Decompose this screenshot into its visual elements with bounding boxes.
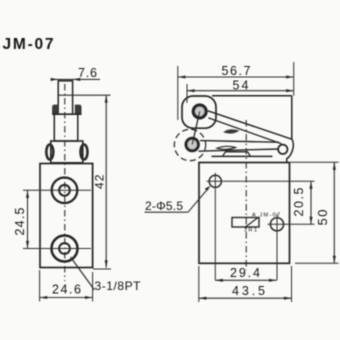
dimension 54 line [187,90,294,92]
dimension 20.5 arrow top [309,181,312,189]
fork upper edge [200,141,279,143]
svg-text:1R1: 1R1 [244,228,257,234]
nameplate rectangle [232,218,259,228]
stem tube [54,114,78,141]
roller holder block [51,141,83,163]
lower roller phantom circle (dashed) [174,129,205,160]
dimension 24.6 arrow left [40,296,48,299]
svg-text:29.4: 29.4 [230,266,260,280]
link line between roller centers [192,111,200,144]
collar tab left [52,105,59,114]
hole right vertical line down to 29.4 dimension [276,214,278,280]
extension line body bottom right for 42 [93,268,111,270]
valve body (right view) [199,163,290,264]
dimension 54 arrow left [187,89,195,92]
dimension 50 arrow top [333,162,336,170]
pivot circle [278,145,287,154]
dimension 50 extension line bottom [295,262,339,264]
port bottom horizontal centerline [23,248,91,250]
dimension 56.7 line [178,76,294,78]
fork lower edge [199,149,279,151]
dimension 29.4 line [215,279,276,281]
collar bottom edge [52,113,81,115]
dimension 43.5 line [199,297,292,299]
top roller housing (squircle) [182,96,216,128]
dimension 56.7 extension line left [177,66,179,120]
dimension 56.7 arrow left [178,75,186,78]
port bottom outer circle [52,236,78,262]
svg-text:43.5: 43.5 [232,284,265,298]
valve body (left view) [40,164,93,268]
dimension 43.5 extension line right [291,266,293,302]
dimension 42 text [93,174,107,189]
dimension 24.5 line [27,190,29,248]
svg-text:24.6: 24.6 [52,283,81,297]
port top horizontal centerline [23,189,91,191]
dimension 24.5 text [13,207,27,235]
svg-text:JM-07: JM-07 [3,36,54,53]
dimension 50 text [315,210,330,226]
dimension 7.6 line [52,78,100,80]
svg-text:42: 42 [93,174,107,189]
base plate channel notch [223,152,251,157]
label underline [145,211,189,213]
mounting hole top-left [209,175,221,187]
dimension 20.5 arrow bottom [309,217,312,225]
roller end left [46,145,53,160]
svg-text:3-1/8PT: 3-1/8PT [95,279,142,293]
dimension 42 arrow top [105,95,108,103]
dimension 50 line [333,162,335,263]
dimension 29.4 arrow left [215,279,223,282]
fork slot lens [217,146,236,149]
dimension 24.6 extension line right [92,272,94,302]
svg-text:2-Φ5.5: 2-Φ5.5 [145,199,183,213]
dimension 56.7 arrow right [286,75,294,78]
nameplate diagonal [246,218,259,228]
port bottom inner circle [59,243,70,254]
roller end right [81,145,88,160]
dimension 54 extension line left [186,84,188,103]
plunger shoulder line and 42 extension line [58,94,110,96]
leader line to 3-1/8PT [71,257,95,290]
head top edge [212,95,292,97]
lever arm slot (dark lens) [223,129,239,133]
dimension 20.5 line [310,181,312,224]
head right edge [287,96,294,163]
dimension 29.4 arrow right [269,279,277,282]
collar tab right [75,105,82,114]
mounting hole right [270,218,283,231]
lever top arm upper edge [208,111,292,139]
dimension 43.5 arrow right [284,297,292,300]
dimension 24.5 arrow top [26,190,29,198]
top roller inner ring [193,105,206,118]
dimension 54 arrow right [286,89,294,92]
dimension 7.6 arrow right [73,78,81,81]
dimension 20.5 text [292,187,306,216]
svg-text:24.5: 24.5 [13,207,27,235]
leader line to hole [188,188,209,212]
dimension 7.6 arrow left [51,78,59,81]
port top outer circle [52,178,78,204]
lower roller inner ring [186,138,198,150]
svg-text:56.7: 56.7 [222,64,251,78]
leader arrowhead [205,186,211,191]
dimension 24.6 arrow right [85,296,93,299]
svg-text:20.5: 20.5 [292,187,306,216]
dimension 24.6 line [40,297,93,299]
dimension 43.5 extension line left [198,266,200,302]
dimension 42 line [105,95,107,268]
dimension 50 arrow bottom [333,256,336,264]
dimension 42 arrow bottom [105,260,108,268]
plunger rod [58,81,72,114]
dimension 56.7 extension line right (top) [293,62,295,96]
hole right horizontal line to 20.5 dimension [268,223,315,225]
head base plate [212,155,273,157]
dimension 24.6 extension line left [39,270,41,302]
center line (right view vertical) [245,120,247,270]
hole top-left horizontal line to 20.5 dimension [207,180,315,182]
dimension 24.5 arrow bottom [26,241,29,249]
port top inner circle [59,185,70,196]
lever top arm lower edge [208,118,281,144]
center line (left view) [64,84,66,281]
hole top-left vertical line down to 29.4 dimension [214,173,216,280]
svg-text:7.6: 7.6 [78,66,97,80]
svg-text:50: 50 [315,210,330,226]
dimension 43.5 arrow left [199,297,207,300]
dimension 50 extension line top [291,161,339,163]
